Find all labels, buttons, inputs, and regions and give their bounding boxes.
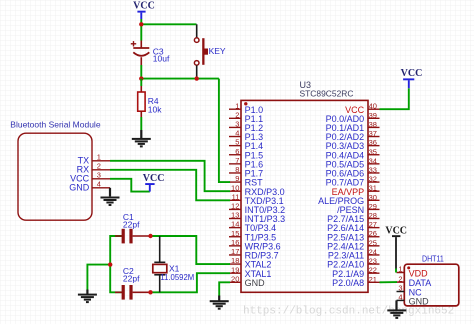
svg-text:11.0592M: 11.0592M <box>160 272 194 282</box>
svg-text:1: 1 <box>97 152 101 161</box>
svg-text:11: 11 <box>232 192 240 201</box>
svg-text:14: 14 <box>231 220 239 229</box>
svg-text:VCC: VCC <box>401 68 423 79</box>
svg-text:13: 13 <box>231 211 239 220</box>
svg-text:2: 2 <box>398 274 402 283</box>
svg-text:30: 30 <box>369 193 377 202</box>
svg-text:2: 2 <box>235 110 239 119</box>
svg-text:21: 21 <box>369 275 377 284</box>
svg-text:3: 3 <box>398 284 402 293</box>
svg-text:33: 33 <box>369 165 377 174</box>
svg-text:https://blog.csdn.net/hongxin6: https://blog.csdn.net/hongxin652 <box>243 305 454 317</box>
svg-text:24: 24 <box>369 247 377 256</box>
svg-text:6: 6 <box>235 147 239 156</box>
svg-text:36: 36 <box>369 138 377 147</box>
svg-text:10uf: 10uf <box>153 54 170 64</box>
svg-text:3: 3 <box>235 120 239 129</box>
svg-text:VCC: VCC <box>143 173 165 184</box>
svg-text:40: 40 <box>369 102 377 111</box>
svg-text:GND: GND <box>245 278 266 288</box>
svg-text:GND: GND <box>69 183 90 193</box>
svg-text:2: 2 <box>97 161 101 170</box>
svg-text:19: 19 <box>231 265 239 274</box>
svg-text:28: 28 <box>369 211 377 220</box>
svg-text:8: 8 <box>235 165 239 174</box>
svg-text:25: 25 <box>369 238 377 247</box>
svg-text:22pf: 22pf <box>123 219 140 229</box>
svg-text:4: 4 <box>97 179 101 188</box>
svg-text:15: 15 <box>231 229 239 238</box>
svg-text:27: 27 <box>369 220 377 229</box>
svg-text:1: 1 <box>398 265 402 274</box>
svg-text:26: 26 <box>369 229 377 238</box>
svg-text:STC89C52RC: STC89C52RC <box>300 88 354 98</box>
svg-text:4: 4 <box>235 129 239 138</box>
svg-text:17: 17 <box>231 247 239 256</box>
svg-text:38: 38 <box>369 120 377 129</box>
svg-text:20: 20 <box>231 274 239 283</box>
svg-text:3: 3 <box>97 170 101 179</box>
svg-text:34: 34 <box>369 156 377 165</box>
svg-text:DHT11: DHT11 <box>422 253 444 263</box>
svg-text:GND: GND <box>409 296 430 306</box>
svg-text:10: 10 <box>231 183 239 192</box>
svg-text:5: 5 <box>235 138 239 147</box>
svg-text:22pf: 22pf <box>123 273 140 283</box>
svg-text:1: 1 <box>235 101 239 110</box>
svg-text:KEY: KEY <box>209 46 226 56</box>
svg-text:39: 39 <box>369 111 377 120</box>
svg-text:18: 18 <box>231 256 239 265</box>
svg-text:9: 9 <box>235 174 239 183</box>
svg-text:31: 31 <box>369 184 377 193</box>
svg-text:VCC: VCC <box>385 226 407 237</box>
svg-text:22: 22 <box>369 266 377 275</box>
svg-text:29: 29 <box>369 202 377 211</box>
svg-text:35: 35 <box>369 147 377 156</box>
svg-text:23: 23 <box>369 257 377 266</box>
svg-text:VDD: VDD <box>409 268 429 278</box>
svg-text:12: 12 <box>231 202 239 211</box>
svg-text:16: 16 <box>231 238 239 247</box>
svg-text:VCC: VCC <box>133 0 155 11</box>
svg-text:7: 7 <box>235 156 239 165</box>
svg-text:Bluetooth Serial Module: Bluetooth Serial Module <box>10 120 101 130</box>
svg-text:32: 32 <box>369 175 377 184</box>
svg-text:37: 37 <box>369 129 377 138</box>
svg-text:P2.0/A8: P2.0/A8 <box>332 278 364 288</box>
svg-text:10k: 10k <box>148 104 162 114</box>
svg-text:4: 4 <box>398 293 402 302</box>
